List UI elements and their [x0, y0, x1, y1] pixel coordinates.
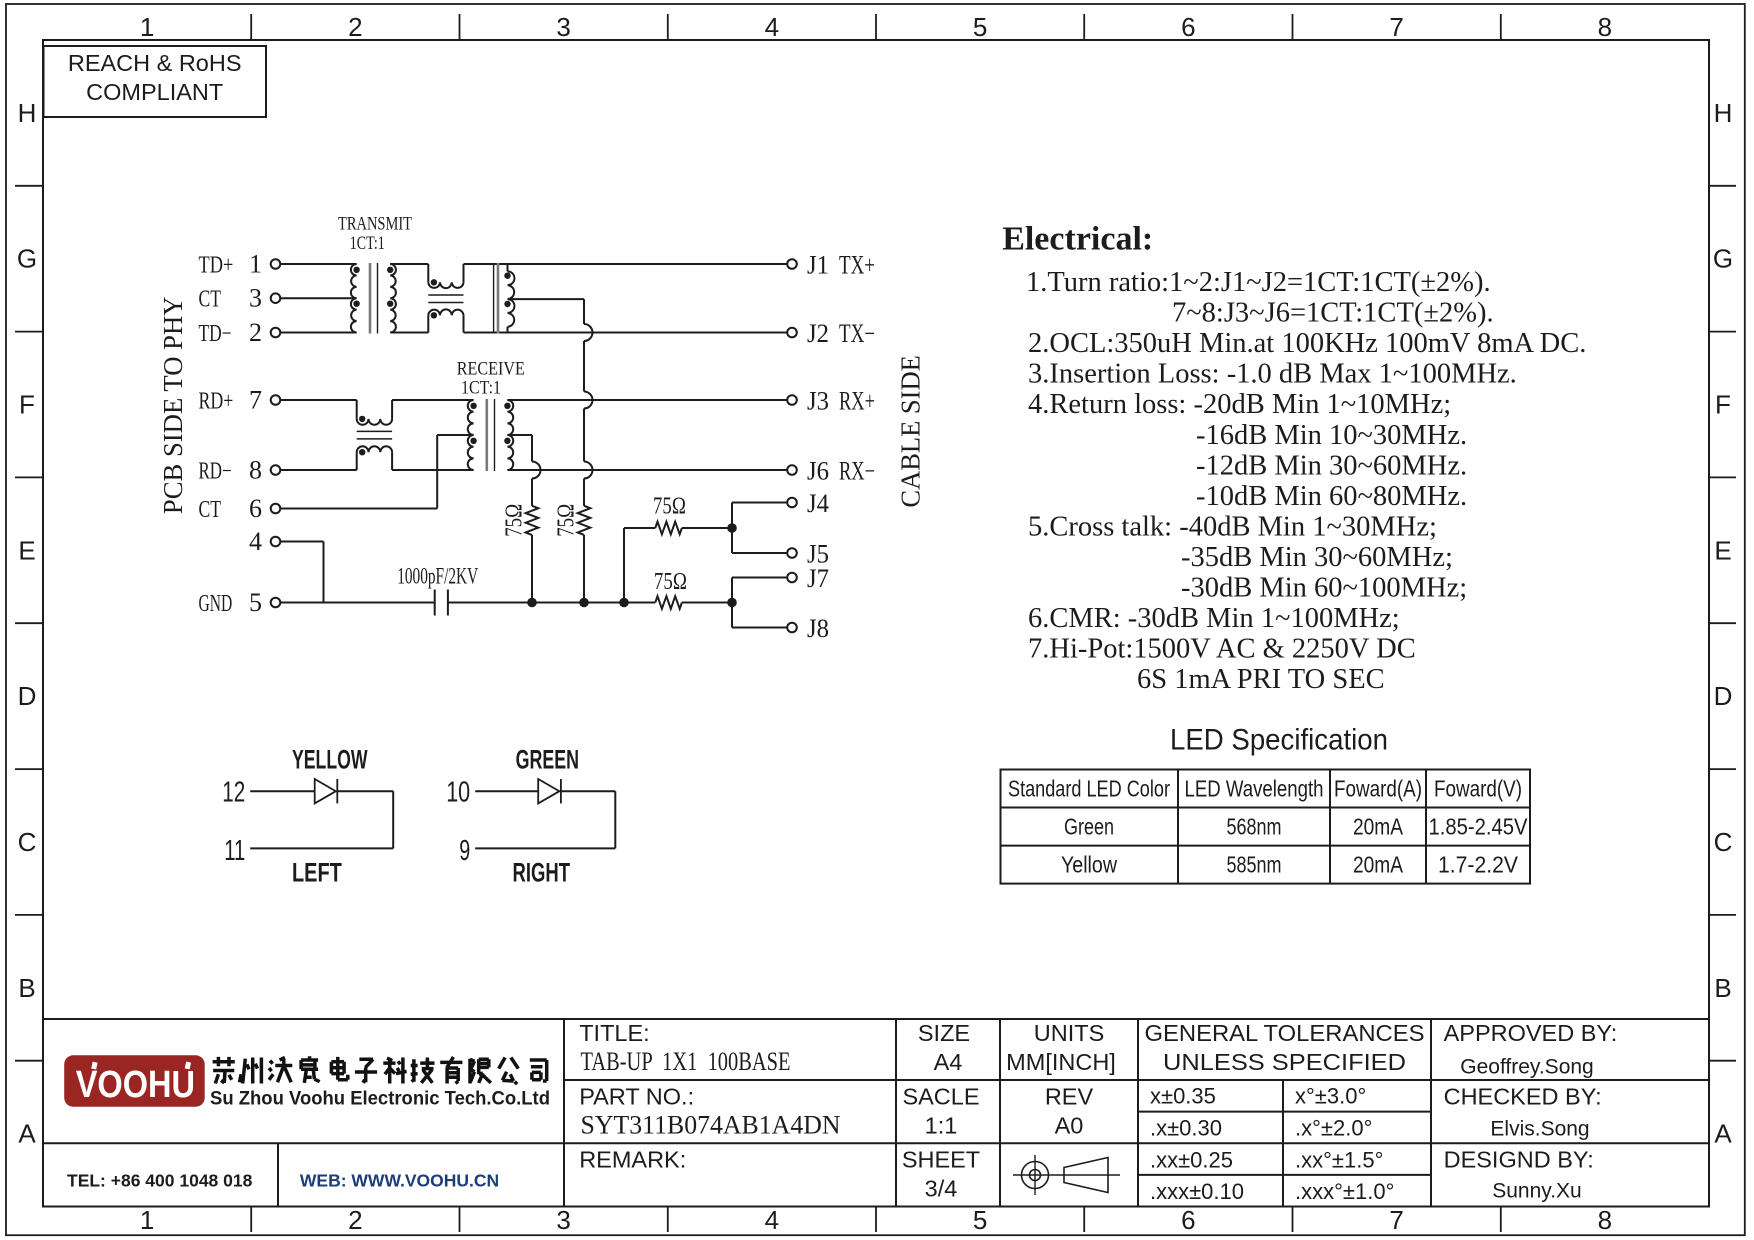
svg-text:J8: J8	[807, 614, 829, 643]
svg-text:-35dB Min 30~60MHz;: -35dB Min 30~60MHz;	[1181, 542, 1453, 573]
svg-text:TAB-UP 1X1 100BASE: TAB-UP 1X1 100BASE	[581, 1047, 791, 1076]
svg-text:RIGHT: RIGHT	[513, 858, 571, 888]
svg-text:5: 5	[973, 1205, 987, 1235]
svg-text:COMPLIANT: COMPLIANT	[86, 79, 223, 105]
svg-text:PCB SIDE TO PHY: PCB SIDE TO PHY	[158, 296, 188, 514]
svg-text:F: F	[19, 390, 35, 420]
svg-text:x±0.35: x±0.35	[1150, 1084, 1216, 1109]
svg-text:7: 7	[249, 385, 262, 414]
svg-text:1CT:1: 1CT:1	[350, 233, 385, 254]
svg-text:3.Insertion Loss: -1.0 dB Max: 3.Insertion Loss: -1.0 dB Max 1~100MHz.	[1028, 359, 1517, 390]
svg-text:7: 7	[1389, 12, 1403, 42]
svg-text:2: 2	[249, 318, 262, 347]
svg-text:2: 2	[348, 12, 362, 42]
svg-text:TRANSMIT: TRANSMIT	[338, 214, 412, 235]
svg-text:SIZE: SIZE	[918, 1020, 970, 1046]
svg-text:DESIGND BY:: DESIGND BY:	[1444, 1147, 1594, 1173]
svg-text:7~8:J3~J6=1CT:1CT(±2%).: 7~8:J3~J6=1CT:1CT(±2%).	[1172, 298, 1494, 329]
svg-text:4.Return loss: -20dB Min 1~10M: 4.Return loss: -20dB Min 1~10MHz;	[1028, 389, 1451, 420]
svg-text:-16dB Min 10~30MHz.: -16dB Min 10~30MHz.	[1196, 420, 1467, 451]
svg-text:x°±3.0°: x°±3.0°	[1295, 1084, 1366, 1109]
svg-text:4: 4	[765, 1205, 779, 1235]
svg-text:REV: REV	[1045, 1084, 1094, 1110]
svg-text:Electrical:: Electrical:	[1002, 221, 1153, 258]
svg-text:A4: A4	[934, 1049, 963, 1075]
svg-text:CT: CT	[199, 287, 222, 313]
svg-text:1: 1	[140, 1205, 154, 1235]
svg-text:TD−: TD−	[199, 321, 232, 347]
svg-text:.x±0.30: .x±0.30	[1150, 1116, 1222, 1141]
svg-text:SACLE: SACLE	[902, 1084, 979, 1110]
svg-text:YELLOW: YELLOW	[292, 744, 368, 774]
svg-text:11: 11	[224, 835, 245, 867]
svg-text:20mA: 20mA	[1353, 852, 1404, 878]
svg-text:APPROVED BY:: APPROVED BY:	[1444, 1020, 1618, 1046]
svg-text:PART NO.:: PART NO.:	[579, 1084, 694, 1110]
svg-text:SYT311B074AB1A4DN: SYT311B074AB1A4DN	[581, 1111, 841, 1140]
svg-text:Foward(V): Foward(V)	[1434, 776, 1522, 802]
svg-text:.xx°±1.5°: .xx°±1.5°	[1295, 1148, 1383, 1173]
svg-text:C: C	[1714, 827, 1733, 857]
svg-text:7.Hi-Pot:1500V AC & 2250V DC: 7.Hi-Pot:1500V AC & 2250V DC	[1028, 634, 1416, 665]
svg-text:585nm: 585nm	[1227, 852, 1282, 878]
svg-text:8: 8	[249, 455, 262, 484]
svg-text:RD−: RD−	[199, 458, 232, 484]
svg-text:REACH & RoHS: REACH & RoHS	[68, 50, 242, 76]
svg-text:RECEIVE: RECEIVE	[457, 359, 525, 380]
svg-text:-10dB Min 60~80MHz.: -10dB Min 60~80MHz.	[1196, 481, 1467, 512]
svg-text:LEFT: LEFT	[292, 858, 342, 888]
svg-text:J7: J7	[807, 564, 829, 593]
svg-text:Elvis.Song: Elvis.Song	[1490, 1118, 1589, 1141]
svg-text:REMARK:: REMARK:	[579, 1147, 686, 1173]
svg-text:Geoffrey.Song: Geoffrey.Song	[1460, 1056, 1593, 1079]
svg-text:Sunny.Xu: Sunny.Xu	[1492, 1180, 1582, 1203]
svg-text:RX+: RX+	[839, 386, 875, 415]
svg-text:UNLESS SPECIFIED: UNLESS SPECIFIED	[1163, 1049, 1406, 1075]
svg-text:C: C	[18, 827, 37, 857]
svg-text:B: B	[1714, 973, 1731, 1003]
svg-text:CT: CT	[199, 497, 222, 523]
svg-text:1000pF/2KV: 1000pF/2KV	[397, 564, 478, 589]
svg-text:6.CMR: -30dB Min 1~100MHz;: 6.CMR: -30dB Min 1~100MHz;	[1028, 603, 1400, 634]
svg-text:.xxx°±1.0°: .xxx°±1.0°	[1295, 1179, 1394, 1204]
svg-text:1CT:1: 1CT:1	[461, 378, 501, 399]
svg-text:TX−: TX−	[839, 319, 875, 348]
svg-text:6: 6	[1181, 12, 1195, 42]
svg-text:3/4: 3/4	[925, 1176, 958, 1202]
svg-text:8: 8	[1598, 12, 1612, 42]
svg-text:GENERAL TOLERANCES: GENERAL TOLERANCES	[1145, 1020, 1425, 1046]
svg-text:G: G	[1713, 244, 1733, 274]
svg-text:7: 7	[1389, 1205, 1403, 1235]
svg-text:75Ω: 75Ω	[654, 569, 687, 595]
svg-text:3: 3	[249, 284, 262, 313]
svg-text:1.Turn ratio:1~2:J1~J2=1CT:1CT: 1.Turn ratio:1~2:J1~J2=1CT:1CT(±2%).	[1026, 267, 1491, 298]
svg-text:A0: A0	[1055, 1113, 1084, 1139]
svg-text:.xx±0.25: .xx±0.25	[1150, 1148, 1233, 1173]
svg-text:75Ω: 75Ω	[554, 504, 580, 537]
svg-text:9: 9	[459, 835, 470, 867]
svg-text:10: 10	[446, 777, 470, 809]
svg-text:H: H	[1714, 98, 1733, 128]
svg-text:12: 12	[222, 777, 245, 809]
svg-text:TX+: TX+	[839, 250, 875, 279]
svg-text:G: G	[17, 244, 37, 274]
svg-text:H: H	[18, 98, 37, 128]
svg-text:A: A	[1714, 1119, 1732, 1149]
svg-text:D: D	[18, 681, 37, 711]
svg-text:Su Zhou Voohu Electronic Tech.: Su Zhou Voohu Electronic Tech.Co.Ltd	[210, 1089, 550, 1110]
svg-text:J3: J3	[807, 386, 829, 415]
svg-text:5: 5	[973, 12, 987, 42]
svg-text:Yellow: Yellow	[1061, 852, 1117, 878]
svg-text:LED Specification: LED Specification	[1170, 724, 1388, 757]
svg-text:1.85-2.45V: 1.85-2.45V	[1429, 814, 1529, 840]
svg-text:.xxx±0.10: .xxx±0.10	[1150, 1179, 1244, 1204]
svg-text:TEL: +86 400 1048 018: TEL: +86 400 1048 018	[67, 1171, 253, 1191]
svg-text:A: A	[18, 1119, 36, 1149]
svg-text:E: E	[18, 535, 35, 565]
svg-text:GREEN: GREEN	[516, 744, 579, 774]
svg-text:75Ω: 75Ω	[653, 494, 686, 520]
svg-text:MM[INCH]: MM[INCH]	[1006, 1049, 1116, 1075]
svg-text:D: D	[1714, 681, 1733, 711]
svg-text:5: 5	[249, 588, 262, 617]
svg-text:RX−: RX−	[839, 456, 875, 485]
svg-text:1: 1	[140, 12, 154, 42]
svg-text:TD+: TD+	[199, 252, 234, 278]
svg-text:75Ω: 75Ω	[501, 504, 527, 537]
svg-text:1:1: 1:1	[925, 1113, 958, 1139]
svg-text:8: 8	[1598, 1205, 1612, 1235]
svg-text:J1: J1	[807, 250, 829, 279]
svg-text:3: 3	[556, 1205, 570, 1235]
svg-text:J4: J4	[807, 489, 829, 518]
svg-text:4: 4	[765, 12, 779, 42]
svg-text:Green: Green	[1064, 814, 1114, 840]
svg-text:2.OCL:350uH Min.at 100KHz 100m: 2.OCL:350uH Min.at 100KHz 100mV 8mA DC.	[1028, 328, 1586, 359]
svg-text:20mA: 20mA	[1353, 814, 1404, 840]
svg-text:6: 6	[1181, 1205, 1195, 1235]
svg-text:.x°±2.0°: .x°±2.0°	[1295, 1116, 1372, 1141]
svg-text:CHECKED BY:: CHECKED BY:	[1444, 1084, 1602, 1110]
svg-text:6: 6	[249, 494, 262, 523]
svg-text:CABLE SIDE: CABLE SIDE	[896, 355, 926, 507]
svg-text:WEB: WWW.VOOHU.CN: WEB: WWW.VOOHU.CN	[300, 1171, 499, 1191]
svg-text:5.Cross talk: -40dB Min 1~30MH: 5.Cross talk: -40dB Min 1~30MHz;	[1028, 511, 1437, 542]
svg-text:GND: GND	[199, 591, 233, 617]
svg-text:4: 4	[249, 527, 262, 556]
svg-text:B: B	[18, 973, 35, 1003]
svg-text:Foward(A): Foward(A)	[1334, 776, 1422, 802]
svg-text:6S 1mA PRI TO SEC: 6S 1mA PRI TO SEC	[1137, 664, 1385, 695]
svg-text:F: F	[1715, 390, 1731, 420]
svg-text:J2: J2	[807, 319, 829, 348]
svg-text:3: 3	[556, 12, 570, 42]
svg-text:568nm: 568nm	[1227, 814, 1282, 840]
svg-text:UNITS: UNITS	[1034, 1020, 1105, 1046]
svg-text:LED Wavelength: LED Wavelength	[1185, 776, 1324, 802]
svg-text:RD+: RD+	[199, 388, 234, 414]
svg-text:-12dB Min 30~60MHz.: -12dB Min 30~60MHz.	[1196, 450, 1467, 481]
svg-text:E: E	[1714, 535, 1731, 565]
svg-text:SHEET: SHEET	[902, 1147, 980, 1173]
svg-text:1: 1	[249, 249, 262, 278]
svg-text:TITLE:: TITLE:	[579, 1020, 650, 1046]
svg-text:-30dB Min 60~100MHz;: -30dB Min 60~100MHz;	[1181, 573, 1467, 604]
svg-text:J6: J6	[807, 456, 829, 485]
svg-text:VOOHU: VOOHU	[76, 1064, 195, 1106]
svg-text:1.7-2.2V: 1.7-2.2V	[1438, 852, 1519, 878]
svg-text:Standard LED Color: Standard LED Color	[1008, 776, 1170, 802]
svg-text:2: 2	[348, 1205, 362, 1235]
